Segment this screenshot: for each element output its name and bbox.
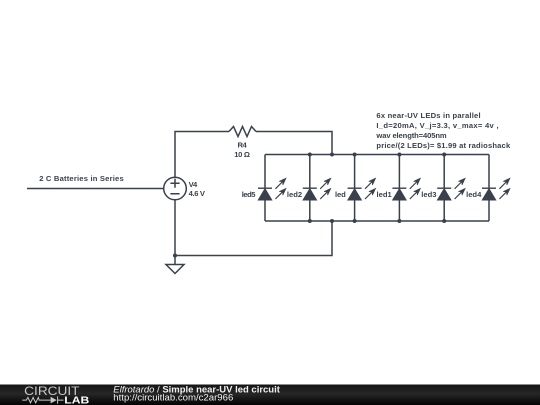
LED led — [348, 155, 376, 222]
voltage source V4 — [164, 177, 187, 200]
svg-text:led5: led5 — [242, 190, 257, 199]
svg-text:V4: V4 — [189, 180, 198, 189]
svg-text:led1: led1 — [377, 190, 393, 199]
node top rail junctions — [308, 153, 312, 157]
ground — [166, 265, 184, 274]
LED led3 — [437, 155, 465, 222]
svg-text:led3: led3 — [421, 190, 436, 199]
svg-text:4.6 V: 4.6 V — [189, 189, 206, 198]
wire V4 bottom to ground — [174, 200, 176, 265]
logo diode — [51, 397, 57, 404]
svg-text:led: led — [335, 190, 346, 199]
svg-text:LAB: LAB — [64, 395, 89, 405]
svg-text:price/(2 LEDs)= $1.99 at radio: price/(2 LEDs)= $1.99 at radioshack — [376, 141, 511, 150]
LED led1 — [392, 155, 420, 222]
wire top rail — [265, 154, 489, 156]
svg-text:2 C Batteries in Series: 2 C Batteries in Series — [39, 174, 124, 183]
LED led5 — [258, 155, 286, 222]
node ground junction — [173, 254, 177, 258]
logo squiggle wire — [22, 396, 63, 403]
svg-text:led4: led4 — [466, 190, 482, 199]
wire V4 top to R4 — [175, 132, 229, 178]
svg-text:R4: R4 — [238, 141, 248, 150]
svg-text:I_d=20mA, V_j=3.3, v_max= 4v ,: I_d=20mA, V_j=3.3, v_max= 4v , — [376, 121, 498, 130]
svg-text:10 Ω: 10 Ω — [234, 150, 250, 159]
node bottom rail junctions — [308, 219, 312, 223]
svg-text:led2: led2 — [287, 190, 302, 199]
svg-text:http://circuitlab.com/c2ar966: http://circuitlab.com/c2ar966 — [113, 393, 233, 403]
resistor R4 — [229, 127, 256, 137]
wire return bottom rail to ground net — [175, 221, 332, 256]
svg-text:wav elength=405nm: wav elength=405nm — [375, 131, 446, 140]
LED led4 — [482, 155, 510, 222]
footer bar — [0, 385, 540, 405]
wire R4 to top rail — [256, 132, 332, 155]
wire battery lead — [27, 188, 164, 190]
LED led2 — [303, 155, 331, 222]
wire bottom rail — [265, 220, 489, 222]
svg-text:6x near-UV LEDs in parallel: 6x near-UV LEDs in parallel — [376, 111, 480, 120]
